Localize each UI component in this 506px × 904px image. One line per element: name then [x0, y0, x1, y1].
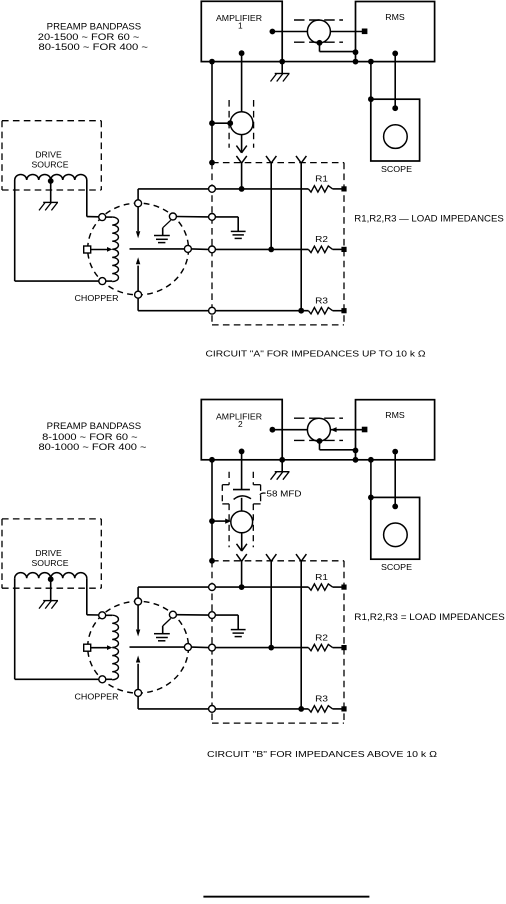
svg-text:SCOPE: SCOPE	[381, 164, 412, 174]
svg-text:CIRCUIT "B" FOR IMPEDANCES ABO: CIRCUIT "B" FOR IMPEDANCES ABOVE 10 k Ω	[207, 749, 438, 759]
svg-text:80-1000 ~ FOR 400 ~: 80-1000 ~ FOR 400 ~	[39, 442, 147, 452]
svg-text:PREAMP BANDPASS: PREAMP BANDPASS	[47, 421, 142, 431]
svg-text:R3: R3	[315, 695, 328, 704]
svg-text:R1: R1	[315, 573, 328, 582]
svg-text:CHOPPER: CHOPPER	[75, 293, 119, 303]
svg-text:CHOPPER: CHOPPER	[75, 691, 119, 701]
svg-text:80-1500 ~ FOR 400 ~: 80-1500 ~ FOR 400 ~	[39, 42, 149, 52]
svg-text:8-1000 ~ FOR 60 ~: 8-1000 ~ FOR 60 ~	[42, 432, 138, 442]
svg-text:R2: R2	[315, 633, 328, 642]
svg-text:SOURCE: SOURCE	[32, 160, 69, 170]
svg-text:R1: R1	[315, 175, 328, 184]
svg-text:PREAMP BANDPASS: PREAMP BANDPASS	[47, 21, 142, 31]
svg-text:R3: R3	[315, 297, 328, 306]
svg-text:SOURCE: SOURCE	[32, 558, 69, 568]
svg-text:R1,R2,R3 — LOAD IMPEDANCES: R1,R2,R3 — LOAD IMPEDANCES	[354, 213, 504, 223]
svg-text:RMS: RMS	[385, 410, 405, 420]
svg-text:2: 2	[238, 419, 243, 429]
svg-text:R2: R2	[315, 235, 328, 244]
svg-text:DRIVE: DRIVE	[35, 150, 62, 160]
svg-text:R1,R2,R3 = LOAD IMPEDANCES: R1,R2,R3 = LOAD IMPEDANCES	[354, 612, 505, 622]
svg-text:SCOPE: SCOPE	[381, 562, 412, 572]
svg-text:DRIVE: DRIVE	[35, 548, 62, 558]
svg-text:20-1500 ~ FOR 60 ~: 20-1500 ~ FOR 60 ~	[38, 32, 140, 42]
svg-text:CIRCUIT "A" FOR IMPEDANCES UP: CIRCUIT "A" FOR IMPEDANCES UP TO 10 k Ω	[206, 349, 427, 359]
svg-text:RMS: RMS	[385, 12, 405, 22]
svg-text:1: 1	[238, 21, 243, 31]
svg-text:58 MFD: 58 MFD	[267, 488, 302, 498]
